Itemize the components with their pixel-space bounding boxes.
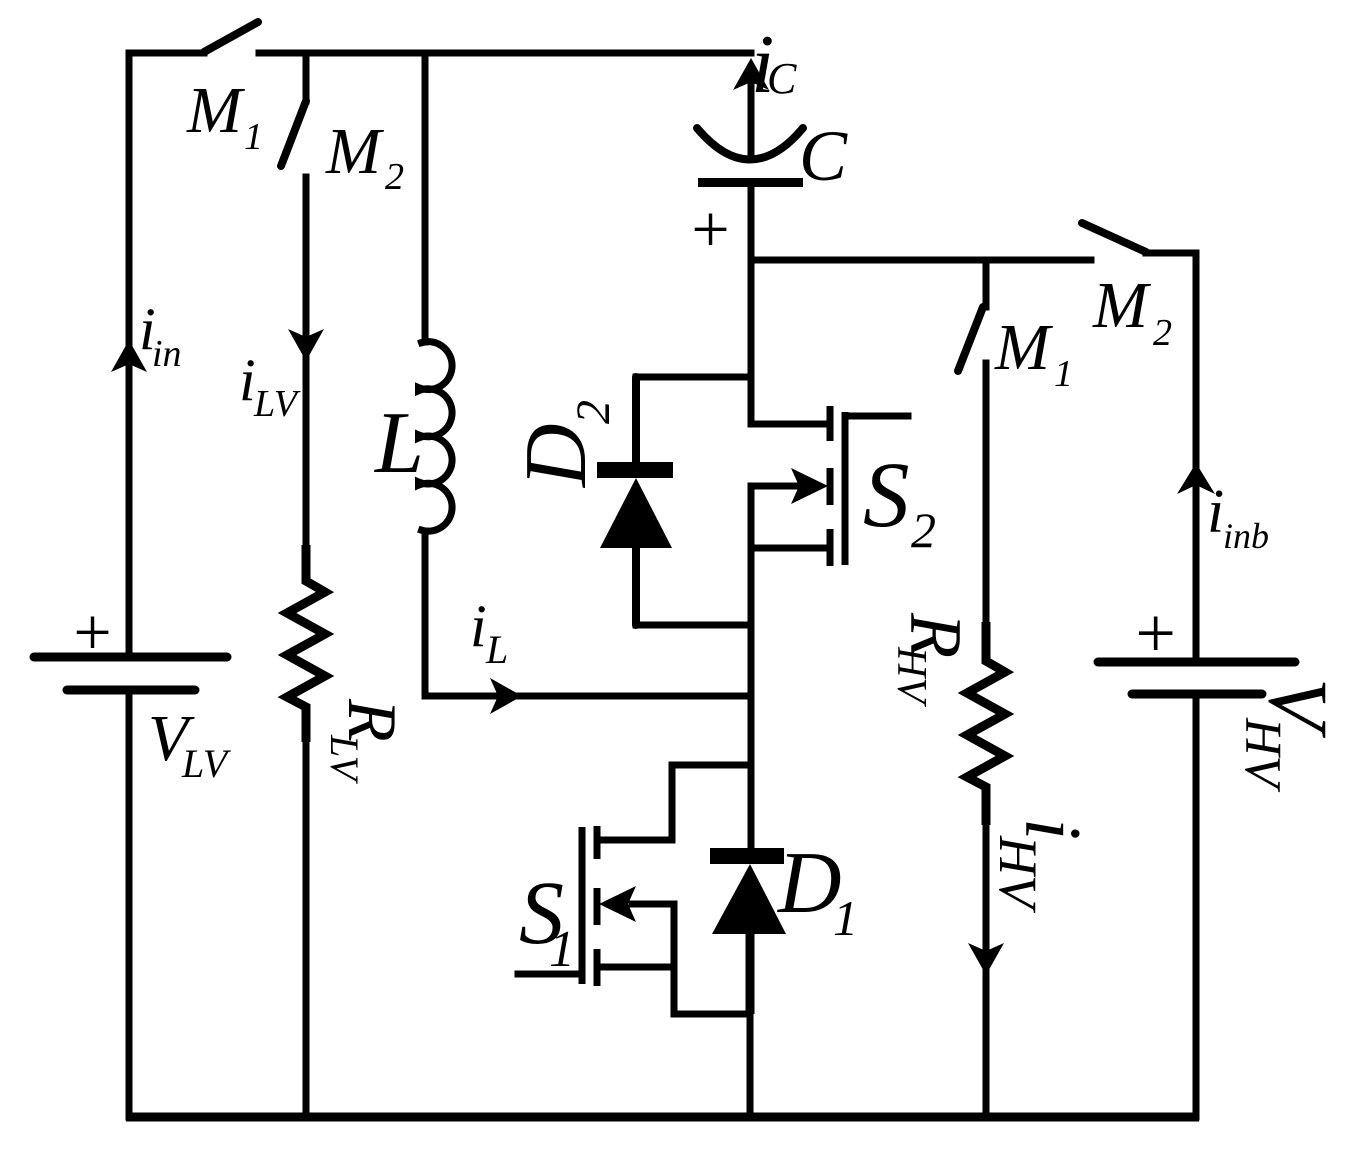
mosfet S1 gate line bbox=[579, 827, 586, 984]
wire RHV column lower bbox=[983, 825, 990, 1117]
label RHV rotated bbox=[888, 612, 976, 707]
inductor L coil bbox=[419, 342, 453, 532]
switch M2 right stub bbox=[1146, 253, 1196, 262]
arrow i_HV bbox=[968, 943, 1004, 975]
arrow i_LV bbox=[288, 329, 324, 361]
wire RLV column upper bbox=[303, 177, 310, 545]
mosfet S2 body arrowhead bbox=[791, 468, 828, 504]
label i_HV rotated bbox=[988, 818, 1096, 914]
mosfet S2 source lead bbox=[752, 545, 827, 552]
diode D1 cathode bar bbox=[710, 848, 784, 864]
svg-text:M: M bbox=[325, 115, 385, 188]
wire top left horizontal bbox=[129, 50, 204, 57]
wire inductor column upper bbox=[422, 53, 429, 342]
svg-text:2: 2 bbox=[911, 502, 936, 558]
D2 upper lead bbox=[632, 377, 640, 462]
diode D2 cathode bar bbox=[597, 462, 673, 478]
svg-text:1: 1 bbox=[549, 921, 575, 978]
wire bottom horizontal bbox=[126, 1113, 1199, 1122]
mosfet S2 gate line bbox=[842, 412, 849, 565]
mosfet S2 middle channel bar bbox=[827, 468, 834, 505]
wire center column lower bbox=[748, 486, 755, 852]
svg-text:HV: HV bbox=[888, 646, 934, 707]
D2 loop top branch bbox=[636, 374, 751, 381]
capacitor C straight plate bbox=[698, 178, 803, 187]
svg-text:2: 2 bbox=[567, 400, 620, 424]
battery VHV long plate bbox=[1098, 658, 1295, 667]
wire RLV column lower bbox=[303, 742, 310, 1117]
diode D1 triangle bbox=[712, 864, 786, 934]
svg-text:LV: LV bbox=[253, 383, 301, 425]
mosfet S1 middle channel bar bbox=[594, 888, 601, 925]
switch M2 right blade bbox=[1082, 223, 1146, 252]
battery VLV long plate bbox=[34, 653, 227, 662]
switch M2 left: top stub bbox=[303, 57, 310, 101]
mosfet S1 bottom lead bbox=[599, 964, 674, 971]
diode D2 triangle bbox=[600, 478, 672, 548]
battery VLV short plate bbox=[67, 686, 195, 695]
svg-text:D: D bbox=[508, 423, 605, 488]
svg-text:2: 2 bbox=[385, 156, 404, 198]
svg-text:i: i bbox=[1207, 478, 1224, 546]
svg-text:C: C bbox=[767, 54, 797, 103]
mosfet S2 drain lead bbox=[751, 421, 827, 428]
svg-text:LV: LV bbox=[181, 741, 232, 786]
svg-text:M: M bbox=[186, 74, 246, 147]
svg-text:i: i bbox=[470, 593, 487, 659]
wire capacitor bottom lead bbox=[748, 187, 755, 263]
wire center column upper (to S2 drain) bbox=[748, 260, 755, 424]
resistor RHV zigzag bbox=[967, 622, 1005, 825]
switch M1 right: top stub bbox=[983, 260, 990, 307]
svg-text:+: + bbox=[1131, 593, 1180, 673]
svg-text:LV: LV bbox=[322, 734, 367, 785]
mosfet S1 mid branch bbox=[671, 904, 678, 967]
diode D1 anode thick lead bbox=[746, 934, 755, 1014]
svg-text:L: L bbox=[485, 627, 508, 672]
switch M1 right blade bbox=[958, 307, 983, 371]
resistor RLV zigzag bbox=[287, 545, 325, 742]
S1 loop bottom branch bbox=[674, 967, 750, 1014]
mosfet S2 bottom channel bar bbox=[827, 529, 834, 566]
svg-text:C: C bbox=[799, 116, 848, 196]
mosfet S1 gate stub bbox=[518, 971, 581, 978]
battery VHV short plate bbox=[1132, 690, 1262, 699]
S1 loop top branch bbox=[672, 765, 751, 840]
D2 lower lead bbox=[632, 548, 640, 625]
arrow i_in bbox=[111, 340, 147, 372]
svg-text:M: M bbox=[994, 311, 1054, 384]
wire RHV column upper bbox=[983, 363, 990, 624]
svg-text:1: 1 bbox=[833, 890, 858, 946]
svg-text:1: 1 bbox=[1054, 353, 1073, 395]
svg-text:in: in bbox=[152, 333, 182, 375]
D2 loop bottom branch bbox=[636, 622, 751, 629]
svg-text:D: D bbox=[777, 835, 842, 932]
mosfet S2 gate stub bbox=[845, 413, 908, 420]
mosfet S1 bottom channel bar bbox=[594, 949, 601, 986]
switch M1 left blade bbox=[204, 22, 258, 52]
wire left column upper bbox=[126, 53, 133, 653]
mosfet S1 top lead bbox=[599, 837, 672, 844]
svg-text:HV: HV bbox=[988, 835, 1048, 914]
wire right column lower bbox=[1193, 698, 1200, 1117]
mosfet S1 body arrow line bbox=[632, 901, 674, 908]
svg-text:2: 2 bbox=[1153, 312, 1172, 354]
svg-text:L: L bbox=[373, 395, 424, 492]
svg-text:+: + bbox=[687, 191, 733, 267]
label RLV rotated bbox=[322, 698, 410, 785]
wire inductor column lower bbox=[425, 531, 748, 696]
capacitor C curved plate bbox=[697, 128, 803, 160]
wire capacitor top lead bbox=[748, 81, 755, 158]
svg-text:1: 1 bbox=[244, 116, 263, 158]
wire middle horizontal to right bbox=[751, 257, 1091, 264]
mosfet S2 top channel bar bbox=[827, 406, 834, 441]
svg-text:S: S bbox=[863, 444, 910, 547]
svg-text:+: + bbox=[69, 594, 115, 670]
svg-text:inb: inb bbox=[1223, 516, 1269, 556]
svg-text:M: M bbox=[1092, 269, 1152, 342]
mosfet S2 body arrow line bbox=[752, 483, 798, 490]
mosfet S1 top channel bar bbox=[594, 826, 601, 859]
switch M2 left blade bbox=[281, 101, 306, 166]
wire right column upper bbox=[1193, 253, 1200, 658]
label VHV rotated bbox=[1234, 678, 1345, 793]
mosfet S1 body arrowhead bbox=[599, 886, 636, 922]
arrow i_inb bbox=[1177, 463, 1215, 494]
svg-text:HV: HV bbox=[1234, 717, 1291, 793]
wire top horizontal to capacitor bbox=[259, 50, 751, 57]
label D2 rotated bbox=[508, 400, 620, 488]
wire center column bottom bbox=[747, 1014, 754, 1117]
arrow i_C bbox=[733, 58, 769, 90]
wire left column lower bbox=[126, 694, 133, 1117]
arrow i_L bbox=[490, 678, 522, 714]
